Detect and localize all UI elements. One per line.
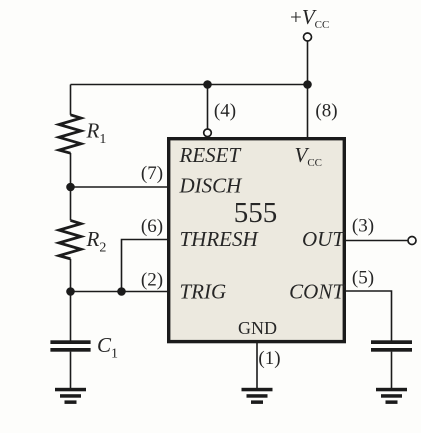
svg-text:OUT: OUT (302, 227, 345, 251)
wire top rail (71, 84, 308, 86)
wire C2 to ground (391, 352, 393, 388)
resistor R1 (59, 115, 81, 153)
svg-text:(8): (8) (315, 100, 337, 121)
svg-text:(4): (4) (214, 100, 236, 121)
RESET inversion bubble pin 4 (204, 129, 212, 137)
ground middle (pin 1) (242, 388, 273, 404)
svg-text:(7): (7) (141, 163, 163, 184)
resistor R2 (59, 220, 81, 259)
wire Vcc pin 8 (307, 85, 309, 138)
capacitor C1 (50, 340, 90, 351)
svg-text:TRIG: TRIG (180, 280, 227, 304)
node junction top-left (pin4 branch) (203, 80, 212, 89)
wire left rail to R1 (70, 85, 72, 115)
terminal +Vcc open circle (304, 33, 312, 41)
svg-text:RESET: RESET (179, 143, 242, 167)
svg-text:(6): (6) (141, 216, 163, 237)
svg-text:GND: GND (238, 318, 277, 338)
ground right (under C2) (376, 388, 407, 404)
wire R2 bottom to TRIG node (70, 259, 72, 292)
wire DISCH pin 7 (71, 186, 169, 188)
wire GND pin 1 (256, 342, 258, 388)
svg-text:(1): (1) (258, 348, 280, 369)
wire R1 bottom to DISCH node (70, 153, 72, 220)
wire OUT pin 3 (345, 240, 408, 242)
svg-text:DISCH: DISCH (179, 174, 244, 198)
wire +Vcc lead (307, 41, 309, 85)
terminal OUT open circle (408, 237, 416, 245)
svg-text:(5): (5) (352, 268, 374, 289)
svg-text:(3): (3) (352, 216, 374, 237)
node junction R1/R2 DISCH (66, 183, 75, 192)
node junction R2/C1 TRIG (66, 287, 75, 296)
ground left (under C1) (55, 388, 86, 404)
node junction THRESH/TRIG (117, 287, 126, 296)
svg-text:(2): (2) (141, 270, 163, 291)
capacitor C2 (control) (371, 340, 412, 351)
node junction top-right (Vcc branch) (303, 80, 312, 89)
wire TRIG pin 2 (71, 291, 169, 293)
svg-text:THRESH: THRESH (180, 227, 260, 251)
wire C1 to ground (70, 352, 72, 388)
svg-text:CONT: CONT (289, 280, 345, 304)
wire TRIG node to C1 (70, 292, 72, 341)
wire RESET pin 4 (207, 85, 209, 129)
svg-text:555: 555 (234, 197, 278, 229)
wire THRESH pin 6 (122, 240, 169, 292)
op-amp U1 555 timer box (169, 139, 345, 342)
wire CONT pin 5 (345, 291, 392, 341)
